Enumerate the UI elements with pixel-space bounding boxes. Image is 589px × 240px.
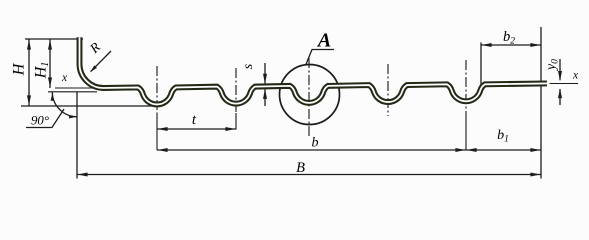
svg-text:90°: 90° (31, 114, 49, 128)
svg-text:H: H (11, 62, 28, 76)
svg-text:x: x (572, 70, 579, 82)
svg-text:b: b (312, 136, 319, 151)
svg-text:x: x (61, 72, 68, 84)
svg-text:A: A (316, 30, 331, 52)
svg-text:B: B (296, 160, 305, 176)
svg-text:s: s (241, 63, 256, 69)
